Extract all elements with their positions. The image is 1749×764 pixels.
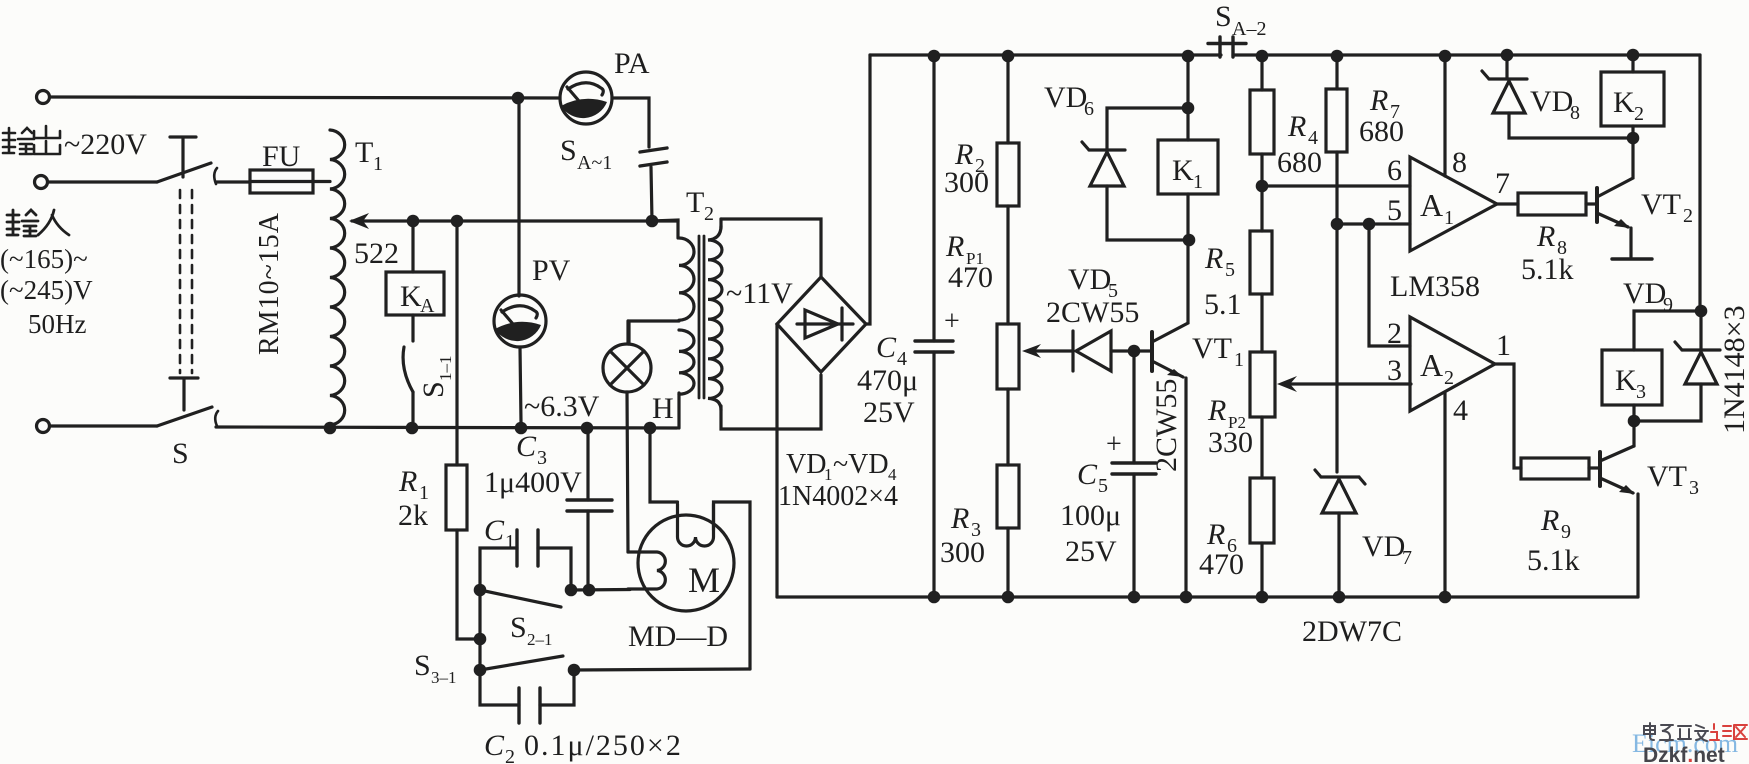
- svg-text:R: R: [1369, 84, 1388, 117]
- node K1 top bus: [1182, 50, 1195, 63]
- wire bottom bus: [777, 595, 1638, 598]
- label S: [172, 437, 189, 470]
- wire PA to SA-1: [612, 98, 649, 147]
- svg-text:VD: VD: [1623, 277, 1666, 310]
- label 2DW7C: [1302, 615, 1402, 648]
- node motor tap: [644, 422, 657, 435]
- svg-text:C: C: [484, 729, 505, 762]
- svg-text:VD: VD: [1068, 263, 1111, 296]
- svg-text:680: 680: [1277, 146, 1322, 179]
- wire top bus: [870, 53, 1700, 56]
- node VD9 junction: [1695, 305, 1708, 318]
- svg-text:VT: VT: [1647, 460, 1687, 493]
- diode VD6: [1082, 108, 1189, 240]
- label VD5 2CW55: [1046, 263, 1139, 329]
- svg-text:470μ: 470μ: [857, 364, 918, 397]
- svg-text:25V: 25V: [863, 396, 915, 429]
- label VD8: [1530, 85, 1580, 124]
- wire bottom terminal: [50, 424, 157, 427]
- svg-text:7: 7: [1495, 167, 1510, 200]
- svg-text:S: S: [510, 611, 527, 644]
- svg-text:1–1: 1–1: [436, 356, 455, 382]
- svg-text:VD: VD: [1362, 530, 1405, 563]
- svg-text:3: 3: [1689, 477, 1699, 499]
- svg-text:8: 8: [1570, 102, 1580, 124]
- node K2 top: [1627, 49, 1640, 62]
- svg-text:2: 2: [1634, 103, 1644, 125]
- label S1-1 rotated: [417, 356, 455, 399]
- switch SA-2: [1208, 37, 1246, 57]
- node C5 bottom: [1128, 591, 1141, 604]
- resistor R3: [997, 465, 1019, 597]
- node K3 bottom: [1628, 415, 1641, 428]
- svg-text:VT: VT: [1192, 332, 1232, 365]
- label R5 5.1: [1204, 242, 1242, 321]
- label VD7: [1362, 530, 1412, 569]
- wire motor top-left lead: [650, 434, 678, 502]
- svg-text:~11V: ~11V: [726, 277, 793, 310]
- label VT1: [1192, 332, 1244, 371]
- label T2: [686, 186, 714, 225]
- op-amp A1: [1410, 157, 1497, 251]
- label LM358: [1390, 270, 1480, 303]
- svg-text:9: 9: [1663, 294, 1673, 316]
- svg-text:2DW7C: 2DW7C: [1302, 615, 1402, 648]
- wire R1 bottom: [457, 530, 480, 639]
- svg-text:K: K: [1613, 86, 1635, 119]
- transformer T2 core: [699, 236, 704, 398]
- svg-text:S: S: [1215, 0, 1232, 33]
- relay K3: [1602, 350, 1662, 446]
- svg-text:S: S: [172, 437, 189, 470]
- node C4 bottom: [928, 591, 941, 604]
- label 2CW55 rotated: [1150, 379, 1183, 472]
- wiper arrow of T1: [349, 213, 678, 229]
- node T1 bottom: [324, 422, 337, 435]
- capacitor C5: [1106, 351, 1156, 597]
- svg-text:2–1: 2–1: [527, 630, 553, 649]
- svg-text:3: 3: [1636, 381, 1646, 403]
- label R2 300: [944, 138, 989, 199]
- node S1-1 bottom: [406, 422, 419, 435]
- node R6 bottom: [1256, 591, 1269, 604]
- label R6 470: [1199, 518, 1244, 581]
- svg-text:1: 1: [1496, 329, 1511, 362]
- label RP1 470: [945, 230, 993, 294]
- label MD-D: [628, 620, 728, 653]
- terminal bottom-left: [37, 420, 50, 433]
- label VT3: [1647, 460, 1699, 499]
- capacitor C3: [567, 428, 612, 590]
- label C5 value: [1060, 458, 1121, 568]
- label T1: [355, 136, 383, 175]
- node R7 top: [1331, 50, 1344, 63]
- svg-text:5.1k: 5.1k: [1527, 544, 1580, 577]
- label SA-1: [560, 134, 612, 174]
- node R4 top: [1256, 50, 1269, 63]
- label PA: [614, 47, 650, 80]
- svg-text:A: A: [1420, 347, 1443, 383]
- svg-text:R: R: [1536, 220, 1555, 253]
- switch S contact tick upper: [214, 168, 217, 184]
- resistor R1: [446, 465, 467, 530]
- transformer T2 secondary: [708, 219, 821, 429]
- svg-text:K: K: [1172, 154, 1194, 187]
- switch S blade lower: [157, 407, 212, 426]
- svg-text:(~245)V: (~245)V: [0, 275, 93, 305]
- wire to fuse: [216, 180, 250, 183]
- node C3 bottom: [583, 584, 596, 597]
- resistor R9: [1521, 458, 1598, 479]
- wire pin5 line: [1337, 222, 1410, 225]
- node C4 top: [928, 50, 941, 63]
- svg-text:300: 300: [944, 166, 989, 199]
- node VD6 bottom: [1183, 234, 1196, 247]
- label FU: [262, 140, 301, 173]
- label S3-1: [414, 649, 457, 687]
- node pin4 bottom: [1439, 591, 1452, 604]
- switch S2-1: [474, 584, 578, 607]
- node pin5 junction R7: [1331, 218, 1344, 231]
- label output 220V (drawn CJK + text): [3, 126, 147, 161]
- svg-text:5: 5: [1225, 259, 1235, 281]
- svg-text:2: 2: [1387, 317, 1402, 350]
- node R1 top: [451, 215, 464, 228]
- label C2 value: [484, 729, 683, 764]
- switch SA-1: [640, 148, 667, 221]
- svg-text:C: C: [1077, 458, 1098, 491]
- wire K3 top: [1634, 311, 1701, 350]
- label VD9: [1623, 277, 1673, 316]
- ammeter PA: [560, 72, 612, 124]
- node VD7 bottom: [1333, 591, 1346, 604]
- svg-text:R: R: [1206, 518, 1225, 551]
- op-amp A2: [1410, 317, 1495, 411]
- transistor VT3: [1600, 446, 1638, 597]
- svg-text:Dzkf.net: Dzkf.net: [1643, 744, 1725, 764]
- zener VD7: [1315, 470, 1365, 597]
- svg-text:+: +: [1106, 429, 1122, 460]
- svg-text:470: 470: [948, 261, 993, 294]
- diode VD8: [1482, 55, 1633, 138]
- wire bridge DC- down: [775, 324, 778, 597]
- node SA-1 bottom: [646, 215, 659, 228]
- svg-text:MD—D: MD—D: [628, 620, 728, 653]
- transformer T2 primary: [629, 220, 694, 428]
- wire bridge DC+ to top bus: [866, 55, 870, 324]
- label C3 value: [484, 430, 582, 499]
- node PV tap: [512, 92, 525, 105]
- node R4 R5 junction: [1256, 180, 1269, 193]
- svg-text:1: 1: [505, 531, 515, 553]
- label H: [652, 392, 674, 425]
- resistor R5: [1250, 186, 1272, 352]
- svg-text:PV: PV: [532, 254, 571, 287]
- label 11V: [726, 277, 793, 310]
- svg-text:470: 470: [1199, 548, 1244, 581]
- node R3 bottom: [1002, 591, 1015, 604]
- label R9 5.1k: [1527, 504, 1580, 577]
- label R3 300: [940, 502, 985, 569]
- svg-text:6: 6: [1084, 98, 1094, 120]
- svg-text:5.1: 5.1: [1204, 288, 1242, 321]
- svg-text:VT: VT: [1641, 188, 1681, 221]
- svg-text:8: 8: [1452, 146, 1467, 179]
- transformer T1 coil: [330, 130, 345, 425]
- voltmeter PV: [494, 104, 546, 422]
- switch S upper contact: [170, 137, 196, 177]
- label 1N4148x3 rotated: [1718, 305, 1749, 434]
- terminal top-left: [37, 91, 50, 104]
- label VT2: [1641, 188, 1693, 227]
- svg-text:6: 6: [1387, 154, 1402, 187]
- transistor VT1: [1134, 246, 1188, 597]
- wire pin6 line: [1262, 184, 1410, 187]
- svg-text:50Hz: 50Hz: [28, 309, 86, 339]
- svg-text:C: C: [484, 514, 505, 547]
- svg-text:T: T: [686, 186, 704, 219]
- switch S contact tick lower: [215, 411, 218, 426]
- svg-text:2: 2: [505, 746, 515, 764]
- wire C3/S2 line to motor: [571, 588, 630, 592]
- svg-text:1μ400V: 1μ400V: [484, 466, 582, 499]
- svg-text:330: 330: [1208, 426, 1253, 459]
- svg-text:(~165)~: (~165)~: [0, 244, 88, 274]
- svg-text:25V: 25V: [1065, 535, 1117, 568]
- svg-text:4: 4: [1453, 394, 1468, 427]
- wire top line to PA: [50, 97, 560, 98]
- svg-text:5: 5: [1387, 194, 1402, 227]
- node R1 join: [474, 633, 487, 646]
- svg-text:~220V: ~220V: [64, 128, 147, 161]
- svg-text:A: A: [420, 295, 435, 317]
- svg-text:~6.3V: ~6.3V: [524, 390, 600, 423]
- svg-text:FU: FU: [262, 140, 301, 173]
- svg-text:+: +: [944, 306, 960, 337]
- wire mid terminal: [48, 180, 157, 183]
- label SA-2: [1215, 0, 1266, 40]
- node VD5 C5 junction: [1128, 345, 1141, 358]
- svg-text:522: 522: [354, 237, 399, 270]
- svg-text:2CW55: 2CW55: [1150, 379, 1183, 472]
- wire ref to pin2: [1369, 224, 1410, 346]
- svg-text:R: R: [945, 230, 964, 263]
- resistor R4: [1250, 56, 1274, 186]
- node C3 top: [581, 422, 594, 435]
- wire A2 output to R9: [1495, 364, 1521, 468]
- diode VD9: [1640, 311, 1720, 421]
- resistor R8: [1518, 193, 1595, 215]
- resistor R6: [1250, 478, 1274, 597]
- svg-text:1: 1: [1193, 171, 1203, 193]
- potentiometer RP2: [1250, 352, 1411, 478]
- svg-text:A: A: [1420, 187, 1443, 223]
- svg-text:VD: VD: [1530, 85, 1573, 118]
- capacitor C4: [915, 56, 960, 597]
- svg-text:3: 3: [1387, 354, 1402, 387]
- node VD8 top: [1501, 49, 1514, 62]
- svg-text:1: 1: [1444, 207, 1454, 229]
- wire S2 column: [478, 590, 481, 670]
- svg-text:VD: VD: [1044, 81, 1087, 114]
- relay coil KA: [386, 227, 444, 317]
- label input text (drawn CJK): [0, 210, 93, 339]
- wire S3 line to motor frame: [574, 669, 750, 670]
- capacitor C2: [480, 670, 574, 723]
- svg-text:~VD: ~VD: [833, 449, 889, 480]
- capacitor C1: [480, 530, 571, 590]
- svg-text:9: 9: [1561, 521, 1571, 543]
- label R1 2k: [398, 465, 429, 532]
- node VD6 top: [1182, 102, 1195, 115]
- terminal mid-left: [35, 176, 48, 189]
- switch S1-1: [403, 315, 413, 422]
- svg-text:T: T: [355, 136, 373, 169]
- label pin numbers A1: [1387, 146, 1510, 227]
- node KA tap: [407, 215, 420, 228]
- switch S lower contact: [170, 378, 198, 410]
- svg-text:0.1μ/250×2: 0.1μ/250×2: [524, 729, 683, 762]
- node pin8 top: [1439, 50, 1452, 63]
- svg-text:M: M: [688, 560, 720, 600]
- relay K2: [1601, 55, 1664, 144]
- svg-text:5: 5: [1098, 475, 1108, 497]
- label VD1-VD4: [778, 449, 898, 512]
- svg-text:R: R: [950, 502, 969, 535]
- label 522: [354, 237, 399, 270]
- svg-text:2CW55: 2CW55: [1046, 296, 1139, 329]
- svg-text:2: 2: [704, 203, 714, 225]
- svg-text:R: R: [1204, 242, 1223, 275]
- resistor R2: [997, 56, 1019, 324]
- svg-text:7: 7: [1402, 547, 1412, 569]
- wire R1 column: [455, 221, 458, 465]
- svg-text:R: R: [398, 465, 417, 498]
- svg-text:S: S: [417, 381, 450, 398]
- svg-text:C: C: [876, 331, 897, 364]
- node R2 top: [1002, 50, 1015, 63]
- svg-text:S: S: [560, 134, 577, 167]
- label C1: [484, 514, 515, 553]
- svg-text:LM358: LM358: [1390, 270, 1480, 303]
- svg-text:2: 2: [1683, 205, 1693, 227]
- potentiometer RP1: [997, 324, 1072, 465]
- wire pin8: [1443, 56, 1446, 176]
- svg-text:C: C: [516, 430, 537, 463]
- svg-text:K: K: [400, 280, 422, 313]
- svg-text:A~1: A~1: [577, 152, 612, 174]
- node VT1 emitter bottom: [1180, 591, 1193, 604]
- svg-text:A–2: A–2: [1232, 18, 1266, 40]
- svg-text:100μ: 100μ: [1060, 499, 1121, 532]
- node PV bottom: [515, 422, 528, 435]
- svg-text:2: 2: [1444, 367, 1454, 389]
- svg-text:680: 680: [1359, 115, 1404, 148]
- node pin5 ref branch: [1363, 218, 1376, 231]
- svg-text:K: K: [1615, 364, 1637, 397]
- label S2-1: [510, 611, 553, 649]
- switch S blade upper: [157, 163, 211, 182]
- transistor VT2: [1597, 144, 1652, 259]
- wire K1 column: [1186, 56, 1189, 140]
- svg-text:R: R: [1207, 394, 1226, 427]
- motor M: [628, 504, 734, 611]
- label RP2 330: [1207, 394, 1253, 459]
- svg-text:VD: VD: [786, 449, 826, 480]
- label 6.3V: [524, 390, 600, 423]
- svg-text:1: 1: [373, 153, 383, 175]
- label pin numbers A2: [1387, 317, 1511, 427]
- zener VD5: [1073, 331, 1134, 371]
- svg-text:S: S: [414, 649, 431, 682]
- label C4 value: [857, 331, 918, 429]
- wire mains bus lower: [216, 427, 677, 428]
- svg-text:R: R: [1287, 110, 1306, 143]
- wire A1 output: [1497, 202, 1518, 205]
- bridge rectifier VD1-VD4: [777, 277, 866, 372]
- label RM10~15A rotated: [254, 212, 285, 355]
- label R8 5.1k: [1521, 220, 1574, 286]
- svg-text:R: R: [1540, 504, 1559, 537]
- label R4 680: [1277, 110, 1322, 179]
- svg-text:3–1: 3–1: [431, 668, 457, 687]
- svg-text:H: H: [652, 392, 674, 425]
- wire pin4: [1443, 393, 1446, 597]
- svg-text:1N4002×4: 1N4002×4: [778, 481, 898, 512]
- wire motor top-right lead: [714, 502, 751, 669]
- svg-text:1N4148×3: 1N4148×3: [1718, 305, 1749, 434]
- svg-text:1: 1: [1234, 349, 1244, 371]
- switch S3-1: [474, 656, 581, 676]
- resistor R7: [1326, 56, 1347, 472]
- fuse FU: [250, 170, 330, 193]
- label PV: [532, 254, 571, 287]
- wire right rail: [1698, 55, 1701, 311]
- switch S linkage dashed: [180, 190, 192, 373]
- svg-text:PA: PA: [614, 47, 650, 80]
- svg-text:300: 300: [940, 536, 985, 569]
- svg-text:2k: 2k: [398, 499, 428, 532]
- node K2 bottom: [1627, 132, 1640, 145]
- label R7 680: [1359, 84, 1404, 148]
- watermark: [1632, 723, 1747, 764]
- lamp H: [603, 321, 651, 552]
- svg-text:RM10~15A: RM10~15A: [254, 212, 285, 355]
- label VD6: [1044, 81, 1094, 120]
- svg-text:5.1k: 5.1k: [1521, 253, 1574, 286]
- relay K1: [1158, 140, 1218, 240]
